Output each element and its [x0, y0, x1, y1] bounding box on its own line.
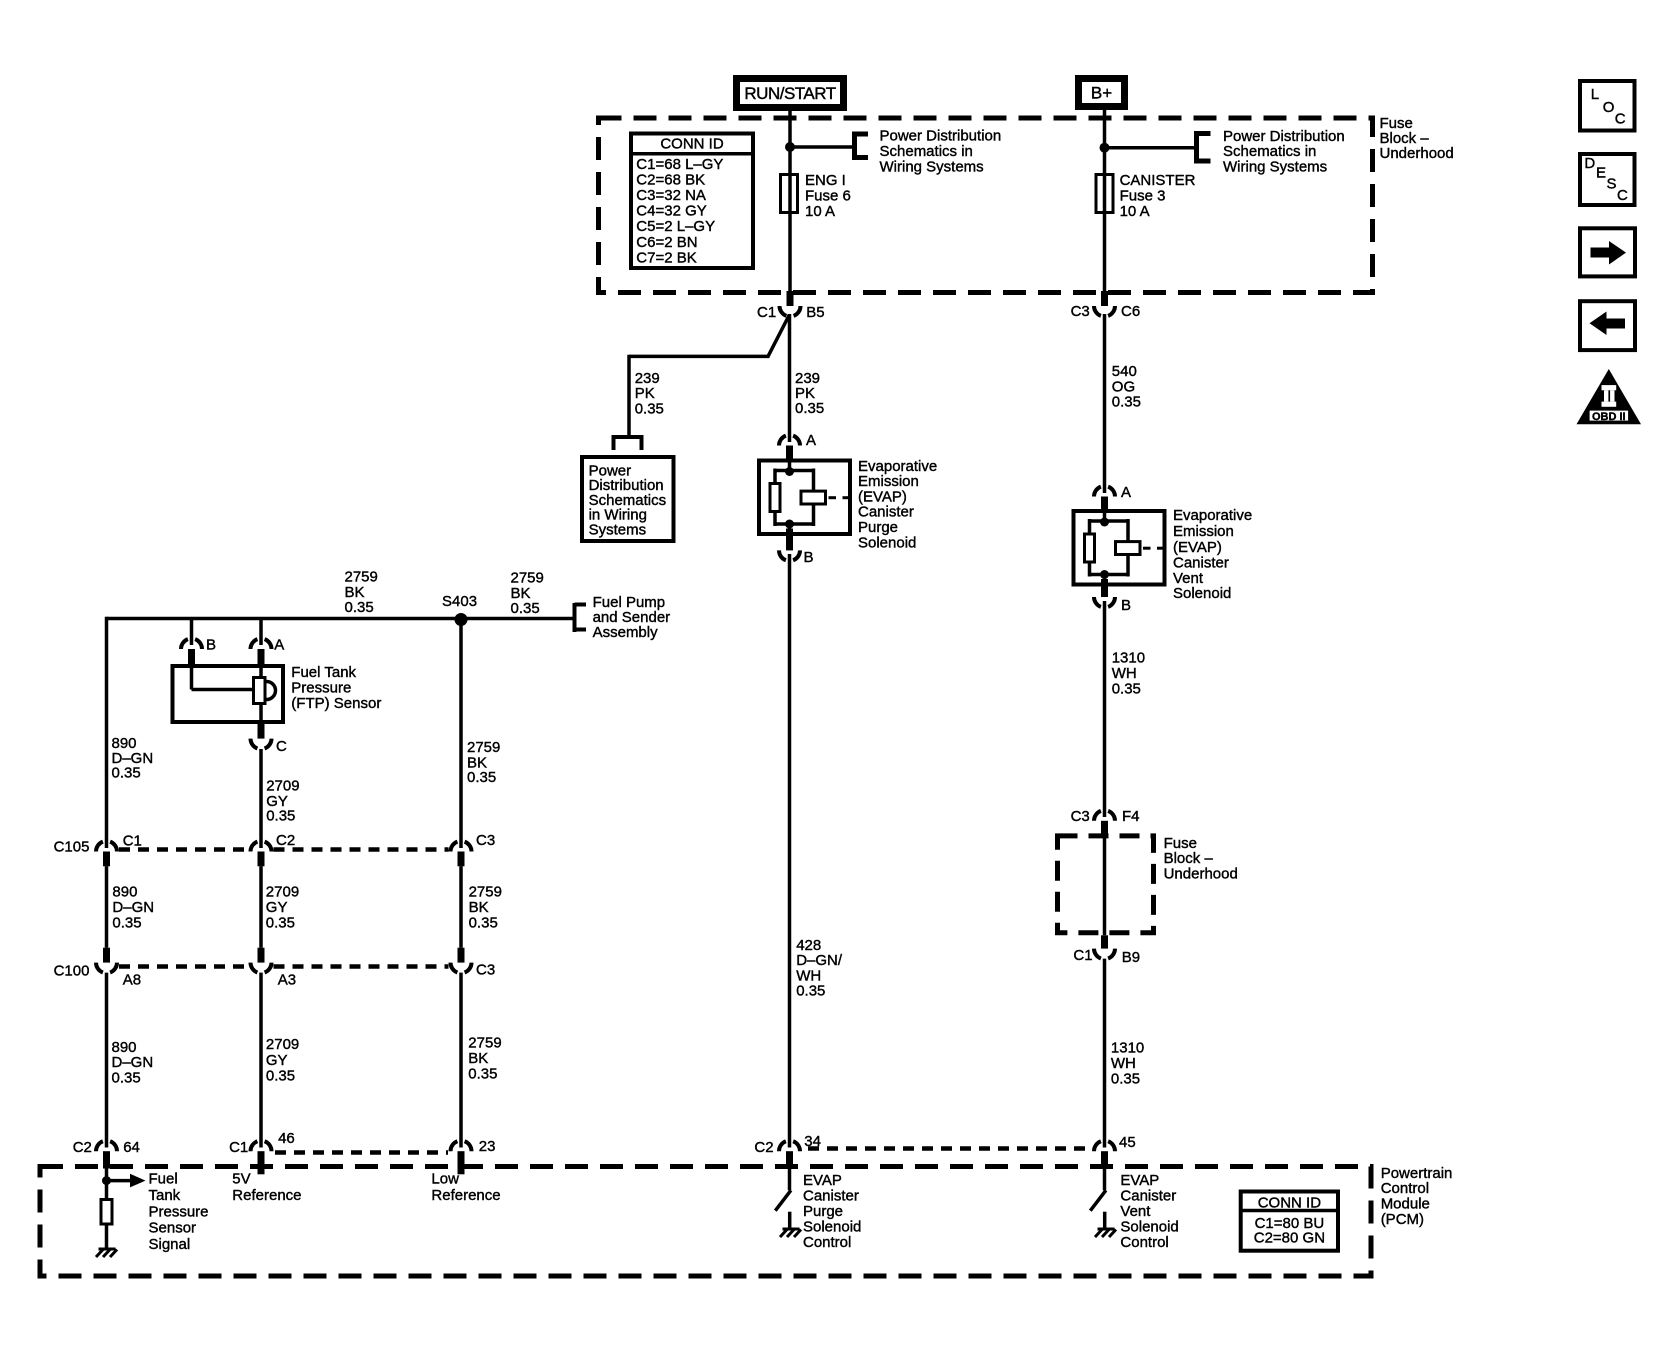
svg-text:890: 890: [112, 884, 137, 901]
svg-text:B: B: [206, 636, 216, 653]
svg-text:Low: Low: [431, 1171, 459, 1188]
wire B+ to fuse CANISTER: [1103, 110, 1107, 291]
wire C100 to PCM 23: [459, 973, 463, 1148]
svg-text:Tank: Tank: [149, 1187, 181, 1204]
svg-text:Signal: Signal: [149, 1236, 191, 1253]
svg-text:46: 46: [278, 1130, 295, 1147]
svg-text:C7=2 BK: C7=2 BK: [636, 249, 696, 266]
dashed connector line 34 to 45: [808, 1146, 1091, 1151]
icon arrow right: [1580, 228, 1635, 276]
wire branch to sensor A: [259, 619, 263, 646]
svg-text:Pressure: Pressure: [149, 1203, 209, 1220]
fuse block - underhood dashed box: [599, 118, 1373, 293]
connector C2/64: [96, 1141, 117, 1168]
svg-text:C6: C6: [1121, 303, 1140, 320]
label 2759 BK 0.35 (C105-C100): [469, 884, 502, 932]
svg-text:Evaporative: Evaporative: [1173, 507, 1252, 524]
svg-text:WH: WH: [1112, 665, 1137, 682]
svg-text:F4: F4: [1122, 808, 1140, 825]
arrow fuel tank pressure sensor signal: [107, 1174, 146, 1188]
wire C1/B5 to purge solenoid A: [788, 314, 792, 442]
svg-text:C1: C1: [123, 833, 142, 850]
connector C100 A3: [250, 948, 271, 973]
icon LOC: [1580, 81, 1635, 131]
label Fuel Tank Pressure (FTP) Sensor: [291, 664, 381, 712]
svg-text:GY: GY: [266, 899, 288, 916]
svg-text:Solenoid: Solenoid: [1173, 585, 1231, 602]
ground (PCM internal): [96, 1249, 117, 1257]
svg-text:0.35: 0.35: [511, 600, 540, 617]
svg-text:C5=2 L–GY: C5=2 L–GY: [636, 218, 715, 235]
dashed connector line C100 right: [274, 964, 449, 969]
svg-text:C2: C2: [276, 832, 295, 849]
svg-text:0.35: 0.35: [467, 769, 496, 786]
off-page connector symbol: [614, 437, 642, 450]
svg-text:2759: 2759: [468, 1035, 501, 1052]
label EVAP Canister Purge Solenoid Control: [803, 1172, 861, 1251]
svg-text:Fuel: Fuel: [149, 1171, 178, 1188]
svg-text:S: S: [1607, 176, 1617, 193]
wire 64 pin to junction: [105, 1169, 109, 1181]
svg-text:Underhood: Underhood: [1164, 866, 1238, 883]
wire vent B to fuse block F4: [1103, 601, 1107, 817]
transistor driver EVAP purge (switch): [775, 1169, 791, 1230]
off-page bracket fuel pump: [575, 603, 587, 632]
connector C2/34: [779, 1141, 800, 1168]
label Fuel Pump and Sender Assembly: [593, 594, 671, 641]
power feed box RUN/START: [737, 79, 844, 108]
svg-text:C1=68 L–GY: C1=68 L–GY: [636, 156, 723, 173]
svg-text:E: E: [1596, 165, 1606, 182]
wire C105 to C100 (2759): [459, 866, 463, 947]
label Evaporative Emission (EVAP) Canister Purge Solenoid: [858, 458, 937, 552]
label 2759 BK 0.35 (left of S403): [345, 569, 378, 617]
label 2759 BK 0.35 (S403 to C105): [467, 739, 500, 786]
svg-text:2709: 2709: [266, 1036, 299, 1053]
svg-text:Assembly: Assembly: [593, 624, 659, 641]
svg-text:Solenoid: Solenoid: [858, 534, 916, 551]
power feed box B+: [1079, 79, 1125, 107]
svg-text:C1: C1: [229, 1139, 248, 1156]
svg-text:C100: C100: [54, 963, 90, 980]
label 2759 BK 0.35 (right of S403): [511, 570, 544, 618]
svg-text:OBD II: OBD II: [1592, 411, 1626, 423]
svg-text:Sensor: Sensor: [149, 1220, 197, 1237]
connector C1/B9: [1094, 935, 1115, 958]
label ENG I Fuse 6 10 A: [805, 172, 851, 220]
svg-text:C: C: [1617, 187, 1628, 204]
svg-text:1310: 1310: [1111, 1039, 1144, 1056]
svg-text:Emission: Emission: [1173, 523, 1234, 540]
svg-text:10 A: 10 A: [805, 203, 835, 220]
fuse block - underhood dashed box (small): [1058, 836, 1154, 933]
label 239 PK 0.35 (purge wire): [795, 370, 824, 417]
svg-text:2709: 2709: [266, 884, 299, 901]
connector A (vent solenoid): [1094, 487, 1115, 510]
svg-text:C1: C1: [1073, 947, 1092, 964]
svg-text:0.35: 0.35: [469, 915, 498, 932]
CONN ID table (PCM): [1241, 1192, 1338, 1251]
svg-text:64: 64: [123, 1139, 140, 1156]
wire C105 to C100 (890): [105, 866, 109, 947]
svg-text:0.35: 0.35: [1112, 681, 1141, 698]
svg-text:B+: B+: [1091, 84, 1112, 103]
svg-text:A3: A3: [278, 972, 296, 989]
svg-text:Wiring Systems: Wiring Systems: [1223, 158, 1327, 175]
svg-text:0.35: 0.35: [266, 1068, 295, 1085]
CONN ID table (fuse block): [631, 134, 753, 269]
connector C3/F4: [1094, 811, 1115, 835]
svg-text:23: 23: [479, 1138, 496, 1155]
label 1310 WH 0.35 (upper): [1112, 649, 1145, 697]
svg-text:5V: 5V: [232, 1171, 250, 1188]
connector 23: [450, 1141, 471, 1174]
svg-text:0.35: 0.35: [635, 400, 664, 417]
svg-text:BK: BK: [468, 1050, 488, 1067]
svg-text:Wiring Systems: Wiring Systems: [880, 158, 984, 175]
node junction at CANISTER feed: [1100, 143, 1110, 153]
svg-text:Underhood: Underhood: [1380, 145, 1454, 162]
label Fuse Block - Underhood (small): [1164, 835, 1238, 883]
svg-text:C1: C1: [757, 304, 776, 321]
svg-text:2759: 2759: [469, 884, 502, 901]
node junction at ENG I feed: [785, 142, 795, 152]
wire horizontal S403 run: [107, 617, 575, 621]
svg-text:C3: C3: [476, 832, 495, 849]
EVAP canister purge solenoid: [759, 459, 850, 551]
wire purge B to PCM 34: [788, 554, 792, 1148]
svg-text:C2=68 BK: C2=68 BK: [636, 171, 705, 188]
icon OBD II: [1577, 369, 1642, 424]
svg-text:GY: GY: [266, 1052, 288, 1069]
svg-text:S403: S403: [442, 593, 477, 610]
wire branch diagonal from C1/B5: [768, 315, 790, 357]
svg-text:C6=2 BN: C6=2 BN: [636, 234, 697, 251]
svg-text:C105: C105: [54, 839, 90, 856]
label 890 D-GN 0.35 (C105-C100): [112, 884, 154, 932]
wire C105 to C100 (2709): [259, 866, 263, 947]
connector A (purge solenoid): [779, 436, 800, 459]
svg-text:O: O: [1603, 99, 1615, 116]
off-page bracket (power distribution right): [1197, 131, 1211, 164]
off-page bracket (power distribution left): [855, 132, 869, 161]
svg-text:B: B: [1121, 597, 1131, 614]
svg-text:Systems: Systems: [589, 521, 647, 538]
svg-text:A: A: [1121, 484, 1131, 501]
connector C (FTP sensor): [250, 724, 271, 749]
svg-text:0.35: 0.35: [266, 808, 295, 825]
label Power Distribution Schematics in Wiring Systems (left): [880, 128, 1002, 176]
wire C100 to PCM 64: [105, 973, 109, 1148]
label CANISTER Fuse 3 10 A: [1120, 172, 1196, 220]
label Evaporative Emission (EVAP) Canister Vent Solenoid: [1173, 507, 1252, 602]
label Powertrain Control Module (PCM): [1381, 1165, 1453, 1228]
svg-text:C2: C2: [73, 1139, 92, 1156]
label 2709 GY 0.35 (C105-C100): [266, 884, 299, 932]
wire C100 to PCM 46: [259, 973, 263, 1148]
svg-text:0.35: 0.35: [468, 1066, 497, 1083]
svg-text:C2=80 GN: C2=80 GN: [1254, 1229, 1325, 1246]
wire C to C105 C2: [259, 749, 263, 848]
wire branch horizontal: [629, 355, 770, 359]
svg-text:C2: C2: [754, 1139, 773, 1156]
svg-text:Fuse 6: Fuse 6: [805, 187, 851, 204]
svg-text:B5: B5: [806, 304, 824, 321]
wire B9 to PCM 45: [1103, 959, 1107, 1148]
wire junction to off-page bracket: [790, 145, 855, 149]
wire RUN/START to fuse ENG I: [788, 111, 792, 291]
wire C3/C6 to vent solenoid A: [1103, 314, 1107, 493]
svg-text:0.35: 0.35: [345, 599, 374, 616]
wire S403 to C105 C3: [459, 620, 463, 849]
svg-text:0.35: 0.35: [795, 400, 824, 417]
svg-text:C: C: [276, 738, 287, 755]
svg-text:B9: B9: [1122, 949, 1140, 966]
svg-text:WH: WH: [1111, 1055, 1136, 1072]
svg-text:Control: Control: [1120, 1234, 1168, 1251]
svg-text:C3: C3: [476, 962, 495, 979]
connector C100 C3: [450, 948, 471, 973]
label Fuel Tank Pressure Sensor Signal: [149, 1171, 209, 1253]
svg-text:RUN/START: RUN/START: [744, 84, 835, 103]
svg-text:Fuel Tank: Fuel Tank: [291, 664, 356, 681]
label 890 D-GN 0.35 (sensor to C105): [112, 735, 154, 781]
node FTP signal junction: [102, 1176, 111, 1185]
connector C1/46: [250, 1141, 271, 1174]
dashed connector line C105 left: [119, 847, 249, 852]
svg-text:Control: Control: [803, 1234, 851, 1251]
svg-text:D: D: [1584, 155, 1595, 172]
svg-text:B: B: [804, 549, 814, 566]
wire branch vertical to off-page symbol: [627, 355, 631, 436]
connector B (purge solenoid): [779, 550, 800, 560]
svg-text:Reference: Reference: [431, 1187, 500, 1204]
svg-text:Fuse 3: Fuse 3: [1120, 187, 1166, 204]
svg-text:0.35: 0.35: [112, 1070, 141, 1087]
icon DESC: [1580, 154, 1635, 205]
svg-text:C4=32 GY: C4=32 GY: [636, 203, 706, 220]
svg-text:CONN ID: CONN ID: [660, 135, 724, 152]
off-page box Power Distribution Schematics in Wiring Systems: [582, 457, 674, 541]
ground (vent driver): [1095, 1229, 1116, 1237]
svg-text:(PCM): (PCM): [1381, 1211, 1424, 1228]
svg-text:L: L: [1591, 86, 1599, 103]
connector C100 A8: [96, 948, 117, 973]
svg-text:0.35: 0.35: [796, 983, 825, 1000]
svg-text:0.35: 0.35: [1112, 394, 1141, 411]
wire branch to sensor B: [190, 619, 194, 646]
svg-text:A8: A8: [123, 972, 141, 989]
dashed connector line C105 right: [274, 847, 449, 852]
svg-text:D–GN: D–GN: [112, 899, 154, 916]
fuse CANISTER Fuse 3 10A: [1096, 175, 1113, 213]
svg-text:(FTP) Sensor: (FTP) Sensor: [291, 695, 381, 712]
fuse ENG I Fuse 6 10A: [781, 175, 798, 213]
label 5V Reference: [232, 1171, 301, 1204]
svg-text:0.35: 0.35: [112, 764, 141, 781]
dashed connector line 46 to 23: [275, 1150, 448, 1155]
node S403: [455, 613, 468, 626]
ground (purge driver): [780, 1229, 801, 1237]
svg-text:0.35: 0.35: [266, 915, 295, 932]
connector B (vent solenoid): [1094, 597, 1115, 607]
label Low Reference: [431, 1171, 500, 1204]
svg-text:C: C: [1615, 110, 1626, 127]
connector C105 C3: [450, 842, 471, 867]
transistor driver EVAP vent (switch): [1090, 1169, 1106, 1230]
resistor (PCM pull-up): [101, 1181, 112, 1249]
svg-text:45: 45: [1119, 1134, 1136, 1151]
svg-text:D–GN: D–GN: [112, 1054, 154, 1071]
label EVAP Canister Vent Solenoid Control: [1120, 1172, 1178, 1251]
connector B (FTP sensor): [181, 639, 202, 664]
wire left drop to C105 C1: [105, 617, 109, 848]
fuel tank pressure sensor box: [173, 664, 284, 724]
svg-text:0.35: 0.35: [1111, 1070, 1140, 1087]
svg-text:Power Distribution: Power Distribution: [880, 128, 1002, 145]
label 890 D-GN 0.35 (C100-PCM): [112, 1039, 154, 1087]
label 2709 GY 0.35 (sensor to C105): [266, 778, 299, 825]
EVAP canister vent solenoid: [1074, 509, 1165, 597]
svg-text:BK: BK: [469, 899, 489, 916]
svg-text:10 A: 10 A: [1120, 203, 1150, 220]
connector A (FTP sensor): [250, 639, 271, 664]
label 2709 GY 0.35 (C100-PCM): [266, 1036, 299, 1085]
svg-text:CONN ID: CONN ID: [1258, 1194, 1322, 1211]
label Power Distribution Schematics in Wiring Systems (right): [1223, 128, 1345, 175]
wire through small fuse block: [1103, 835, 1107, 935]
label 2759 BK 0.35 (C100-PCM): [468, 1035, 501, 1083]
label 540 OG 0.35: [1112, 363, 1141, 411]
label 239 PK 0.35 (branch): [635, 370, 664, 417]
icon arrow left: [1580, 301, 1635, 350]
dashed connector line C100 left: [119, 964, 249, 969]
svg-text:A: A: [274, 636, 284, 653]
powertrain control module dashed box: [40, 1167, 1371, 1277]
label 428 D-GN/ WH 0.35: [796, 937, 843, 1000]
svg-text:C3: C3: [1071, 808, 1090, 825]
label Fuse Block - Underhood (top right): [1380, 115, 1454, 162]
svg-text:C3: C3: [1071, 303, 1090, 320]
svg-text:A: A: [806, 432, 816, 449]
connector C1/B5: [779, 291, 800, 316]
svg-text:Pressure: Pressure: [291, 680, 351, 697]
connector 45: [1094, 1141, 1115, 1168]
connector C105 C1: [96, 842, 117, 867]
connector C105 C2: [250, 842, 271, 867]
svg-text:Reference: Reference: [232, 1187, 301, 1204]
svg-text:1310: 1310: [1112, 649, 1145, 666]
label 1310 WH 0.35 (lower): [1111, 1039, 1144, 1087]
connector C3/C6: [1094, 291, 1115, 316]
svg-text:C3=32 NA: C3=32 NA: [636, 187, 706, 204]
wire junction to off-page bracket (right): [1105, 146, 1197, 150]
svg-text:0.35: 0.35: [112, 915, 141, 932]
